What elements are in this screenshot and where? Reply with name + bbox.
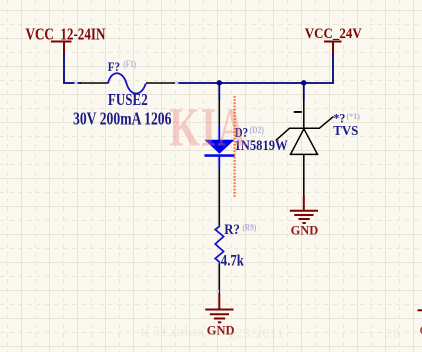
svg-text:t/ 51.mkia...: t/ 51.mkia... bbox=[140, 324, 216, 340]
svg-text:F?: F? bbox=[108, 59, 120, 74]
svg-text:(D2): (D2) bbox=[250, 125, 265, 135]
svg-text:VCC_12-24IN: VCC_12-24IN bbox=[26, 25, 106, 44]
svg-text:GND: GND bbox=[291, 223, 319, 237]
svg-text:(R9): (R9) bbox=[242, 223, 256, 233]
svg-text:(F1): (F1) bbox=[123, 59, 136, 69]
svg-text:4.7k: 4.7k bbox=[221, 252, 245, 270]
svg-text:R?: R? bbox=[224, 222, 240, 238]
svg-text:g23/2011: g23/2011 bbox=[228, 326, 284, 342]
svg-text:FUSE2: FUSE2 bbox=[108, 92, 148, 110]
svg-text:(*1): (*1) bbox=[347, 112, 361, 121]
svg-text:20: 20 bbox=[385, 326, 400, 342]
svg-text:30V 200mA 1206: 30V 200mA 1206 bbox=[73, 110, 171, 129]
svg-text:TVS: TVS bbox=[333, 123, 358, 138]
svg-text:VCC_24V: VCC_24V bbox=[305, 26, 362, 42]
